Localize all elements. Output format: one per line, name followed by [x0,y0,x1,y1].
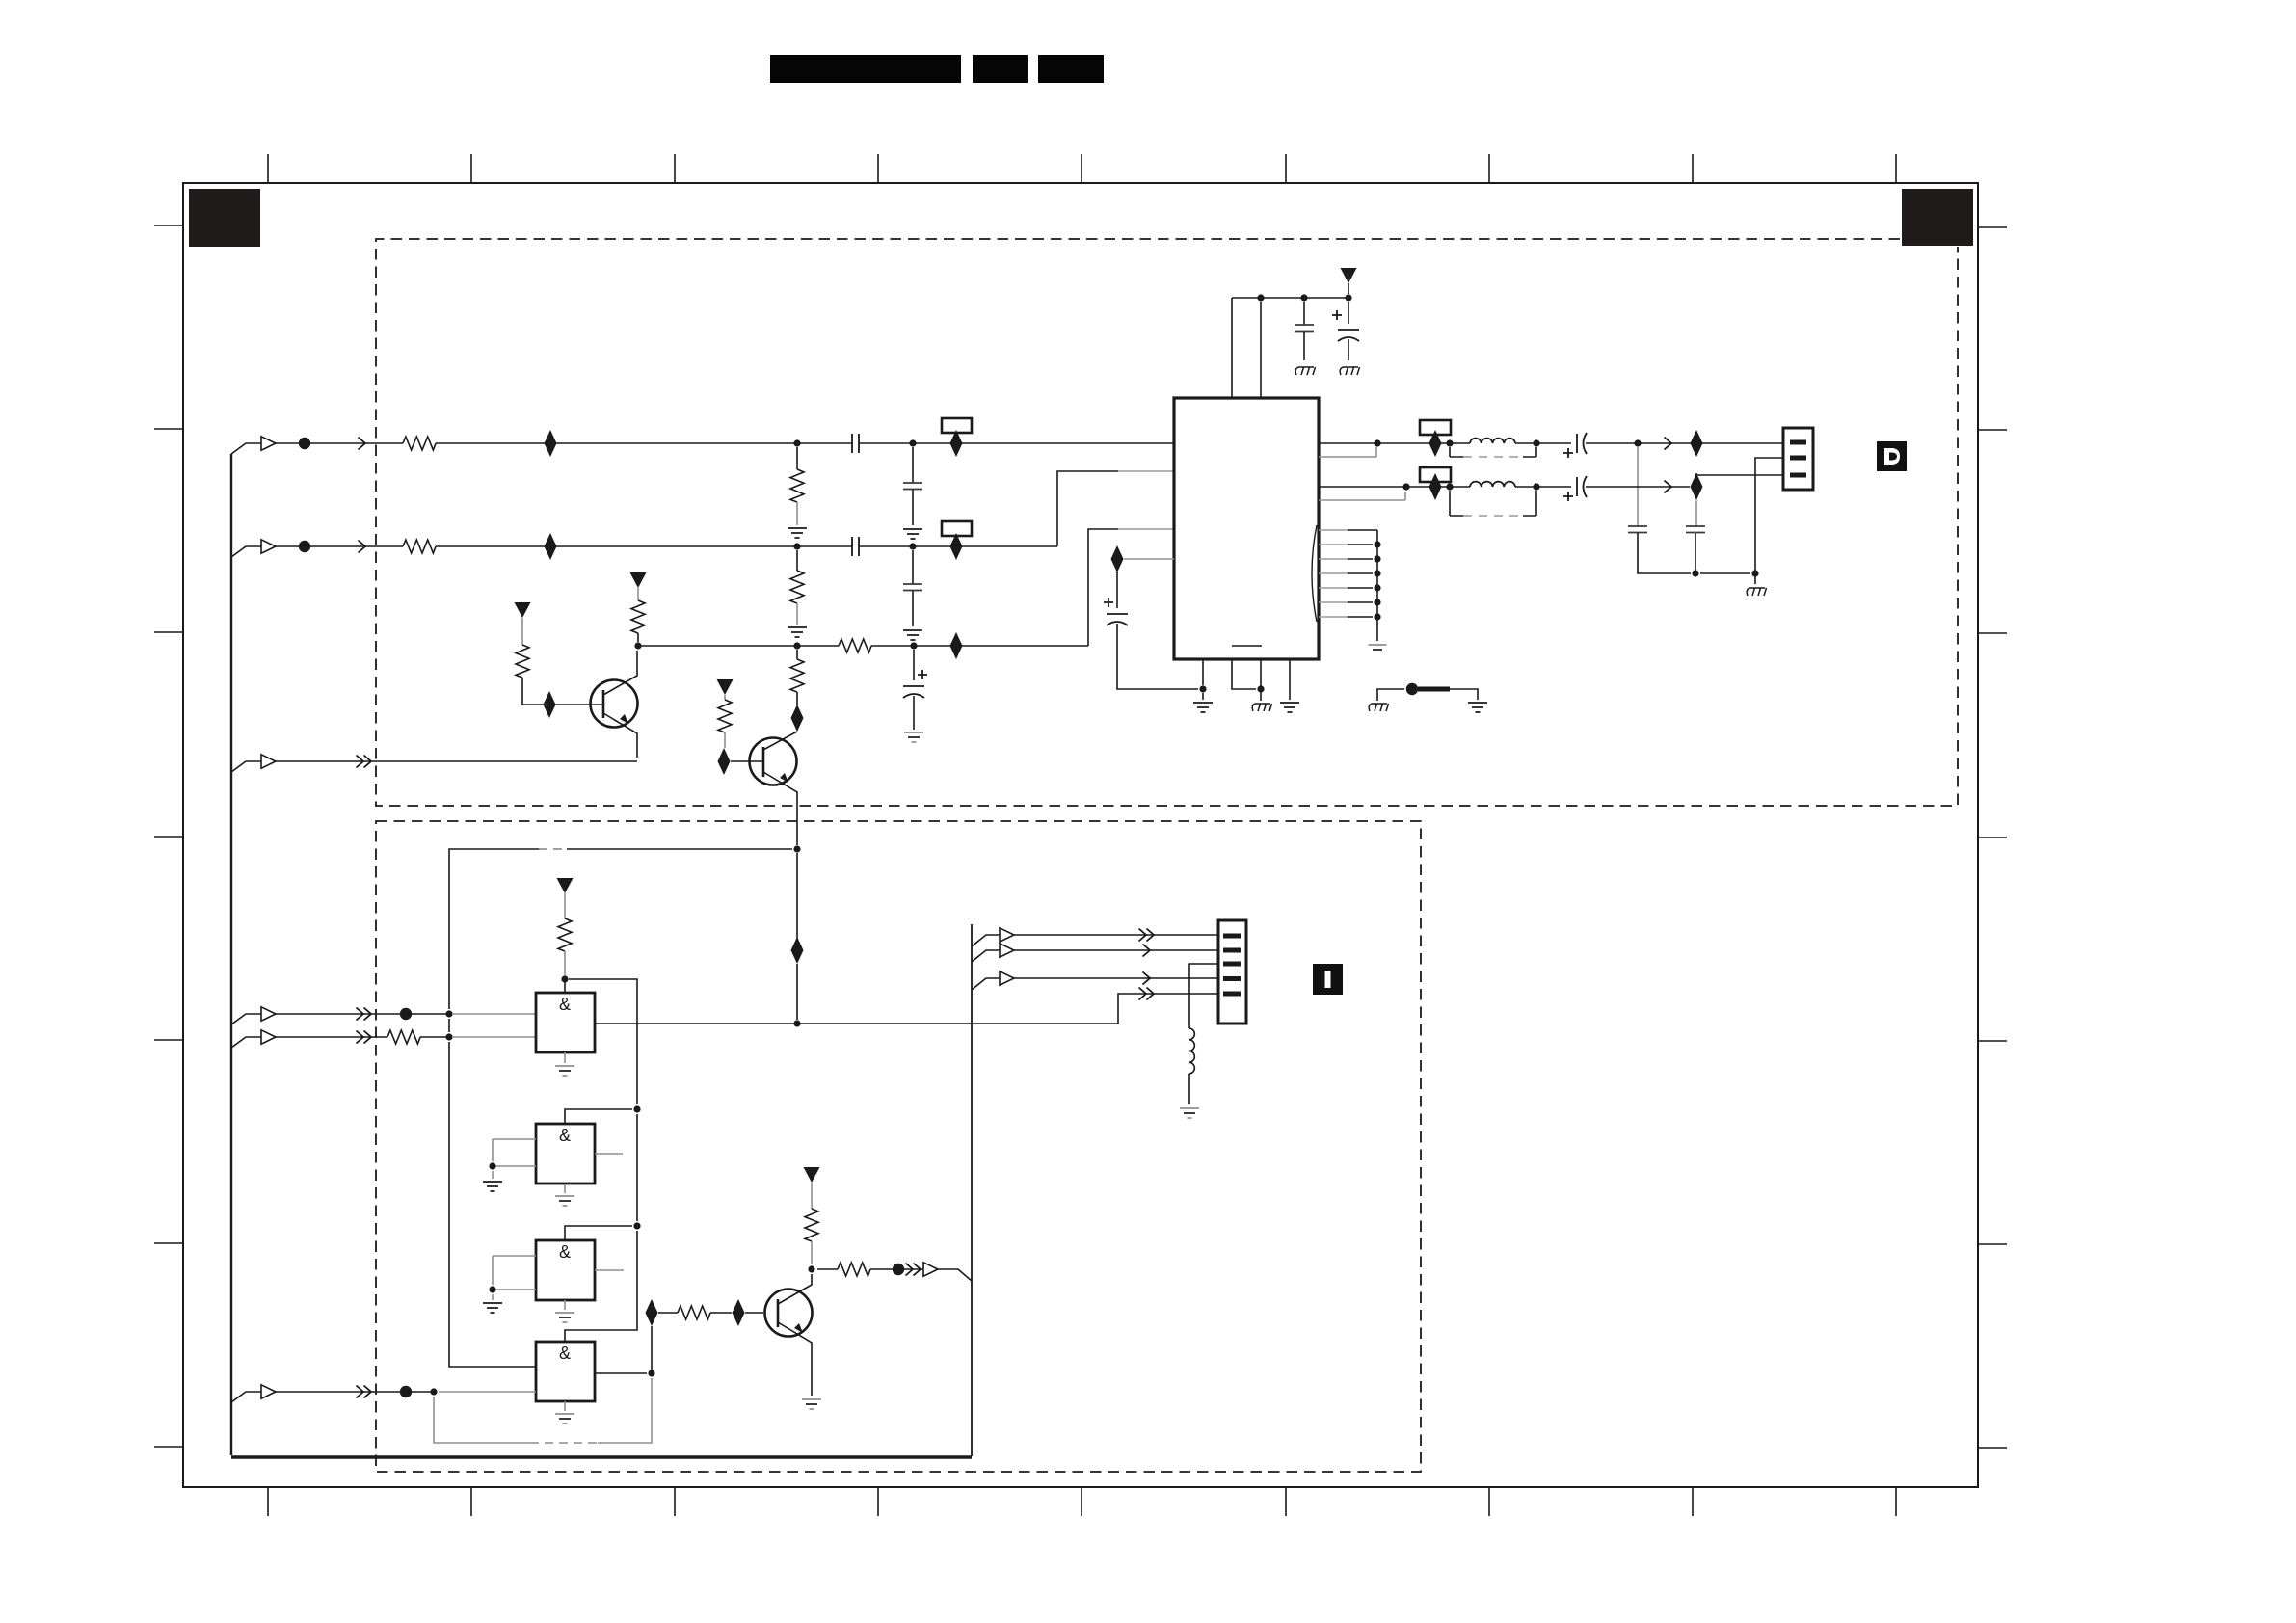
wire line5 [276,1036,449,1038]
node line1 [299,438,310,449]
capacitor C2 series [852,537,859,556]
junction [1533,483,1539,490]
diamond node base line [646,1299,658,1326]
NAND gate U2B [536,1124,595,1184]
junction [1751,570,1758,576]
chevron ch1 [1665,438,1672,450]
gate3 output stub [595,1269,624,1271]
gate3 tied inputs [493,1256,536,1300]
ground claw [1747,588,1766,596]
rail riser to IC [1088,529,1118,646]
double chevron line5 [357,1031,364,1044]
ground Q3 emitter [802,1399,821,1409]
resistor R12 [678,1306,710,1319]
resistor R4 to ground [796,550,798,571]
resistor R11 pull-up [558,918,572,951]
resistor R3 [403,540,436,553]
wire ch1 to connector [1586,442,1783,444]
wire into gate1 input2 [453,1036,536,1038]
capacitor C1 series [852,434,859,453]
label box L? [1420,420,1451,435]
node [1345,294,1351,301]
feedback vertical x661 [565,979,637,1342]
left input bus [230,454,232,1455]
channel1 aux pin [1319,447,1376,457]
corner block top-right [1902,189,1973,246]
junction [1446,483,1453,490]
svg-text:&: & [559,995,571,1014]
wire line1 after cap [859,442,1174,444]
junction rail left [634,642,641,649]
gate3 ground [564,1300,566,1310]
resistor R9 [718,700,732,732]
channel1 output wire [1319,442,1571,444]
gate2 tied inputs [493,1139,536,1179]
big node line4 [400,1008,412,1020]
NAND gate U2C [536,1240,595,1300]
junction line6 [430,1388,437,1395]
ground [483,1303,502,1313]
wire line1 entry slant [231,443,261,454]
node [1257,294,1264,301]
diamond node line1 [545,430,557,457]
label box R? [942,418,972,433]
channel2 aux pin [1319,492,1405,500]
frame tick marks bottom [268,1487,1896,1516]
section label I [1313,964,1343,995]
chevron O3 [1143,972,1151,985]
IC label line [1232,645,1262,647]
IC U1 [1174,398,1319,659]
diamond node Q1 base [544,691,556,718]
resistor R5 [516,645,529,678]
junction [445,1010,452,1017]
junction [1446,439,1453,446]
transistor Q1 [591,680,638,728]
gate1 ground [564,1052,566,1063]
diamond node ch1 [1429,430,1442,457]
dashed box section D [376,239,1958,806]
IC bottom pins joined [1232,659,1261,701]
capacitor C11 to ground [1637,447,1639,526]
junction rail C5 [910,642,917,649]
chevron ch2 [1665,481,1672,493]
ground [483,1182,502,1191]
resistor R8 rail to Q2 collector [796,650,798,659]
double chevron line4 [357,1008,364,1021]
junction [1533,439,1539,446]
junction [1692,570,1698,576]
ground [788,528,807,538]
redacted wire label [1418,687,1450,692]
gate2 top pin wire [565,1109,632,1124]
frame tick marks top [268,154,1896,183]
inductor L1 [1470,439,1515,443]
gate2 output stub [595,1153,623,1155]
connector pin3 coil wire [1189,964,1218,1104]
input arrow line5 [261,1030,276,1044]
wire line2 to cap [436,545,852,547]
junction [1634,439,1641,446]
ground [788,627,807,637]
wire line6 [276,1391,434,1393]
gate4 output wire [595,1372,647,1374]
resistor R1 [403,437,436,450]
NAND gate U2A [536,993,595,1052]
junction box top [793,845,800,852]
IC top pin wires [1232,298,1261,398]
svg-text:&: & [559,1242,571,1262]
wire node to gate1 top [564,979,566,993]
capacitor C3 to ground [912,447,914,483]
Q2 emitter feedback wire [796,853,798,1020]
frame tick marks left [154,226,183,1447]
wire to Q2 base [731,760,763,762]
title redaction bar 3 [1038,55,1104,83]
wire to resistor [658,1312,763,1314]
wire line2 after cap [859,545,1057,547]
input arrow line2 [261,540,276,553]
node [1300,294,1307,301]
junction rail Q2 [793,642,800,649]
inductor L2 [1470,482,1515,487]
wire line4 [276,1013,449,1015]
wire line2 entry slant [231,546,261,557]
frame border [183,183,1978,1487]
capacitor C12 to ground [1695,500,1697,526]
wire line4 entry slant [231,1014,261,1024]
wire line3 [276,760,637,762]
capacitor C6 to ground [1303,302,1305,325]
inductor L3 [1189,1028,1194,1074]
output line O2 tap [972,950,1218,962]
diamond node emitter wire [791,937,804,964]
resistor R2 to ground [796,447,798,469]
diamond node ch2 out [1691,473,1703,500]
output line O1 tap [972,935,1218,946]
wire line5 entry slant [231,1037,261,1048]
capacitor C5 electrolytic to ground [913,650,915,680]
IC bottom pin gnd2 [1289,659,1291,700]
IC pin bracket [1312,525,1317,622]
diamond node line2b [950,533,963,560]
input arrow line1 [261,437,276,450]
connector pin2 wire [1755,458,1783,570]
NAND gate U2D [536,1342,595,1401]
redacted wire label dashes [539,848,567,850]
transistor Q3 [765,1290,813,1337]
chevron O2 [1143,945,1151,957]
output line O3 tap [972,978,1218,990]
resistor R13 [805,1209,818,1241]
shield rect ch1 [1450,447,1536,457]
ground [903,630,922,640]
diamond node Q2 base [718,748,731,775]
section label D [1877,441,1907,471]
wire line3 entry slant [231,761,261,772]
svg-text:&: & [559,1344,571,1363]
wire into gate4 input2 [439,1391,536,1393]
transistor Q2 [750,738,797,785]
wire IC pin to cap node [1124,558,1174,560]
IC bottom pin gnd1 [1202,659,1204,700]
wire line2 up to IC pin [1057,471,1118,546]
wire line1 [276,442,403,444]
diamond node ch2 [1429,473,1442,500]
resistor R10 [387,1030,420,1044]
junction feedback U2B [633,1105,640,1112]
wire line2 [276,545,403,547]
big node [1406,683,1418,695]
wire to Q1 base [522,678,603,705]
junction line2 R4 [793,543,800,549]
gate1 output wire [595,994,1218,1024]
junction pullup node [561,975,568,982]
double chevron line6 [357,1386,364,1398]
capacitor C9 polarized series [1577,433,1587,454]
ground [1340,367,1359,375]
capacitor C10 polarized series [1577,476,1587,497]
junction line2 C4 [909,543,916,549]
supply arrow Vcc5 [557,878,574,893]
supply arrow Vcc2 [630,572,647,588]
junction [1374,439,1380,446]
capacitor C7 electrolytic to ground [1348,302,1349,324]
double chevron out4 [1139,988,1147,1000]
double chevron O1 [1139,929,1147,942]
frame tick marks right [1978,227,2007,1448]
supply rail top y309 [1232,297,1348,299]
input arrow line3 [261,755,276,768]
title redaction bar 2 [973,55,1028,83]
gate4 ground [564,1401,566,1411]
diamond node ch1 out [1691,430,1703,457]
gnd bus wire [1700,570,1755,584]
diamond node rail [950,632,963,659]
wire ch2 to connector [1586,486,1690,488]
connector CN-I [1218,920,1246,1024]
corner block top-left [189,189,260,247]
supply arrow Vcc6 [804,1167,820,1183]
label box L? ch2 [1420,467,1451,482]
junction feedback U2C [633,1222,640,1229]
diamond node Q2 collector [791,705,804,732]
supply arrow Vcc1 [515,602,531,618]
wire line6 entry slant [231,1392,261,1402]
svg-text:&: & [559,1126,571,1145]
supply arrow Vcc3 [717,679,734,695]
junction gate4 out [648,1370,654,1376]
junction [445,1033,452,1040]
junction line1 C3 [909,439,916,446]
big node out [893,1264,904,1275]
diamond node C8 [1111,545,1124,572]
dashed box section I [376,821,1421,1472]
chevron line2 [359,541,366,553]
ground claw [1252,704,1271,711]
resistor R14 [838,1263,870,1276]
output wire via R14 [817,1269,972,1281]
junction [1402,483,1409,490]
ground [904,732,923,742]
wire line1 to cap [436,442,852,444]
diamond node line1b [950,430,963,457]
wire into gate1 input1 [453,1013,536,1015]
arrow O3 [1000,971,1014,985]
resistor R6 [631,600,645,633]
shield rect ch2 [1450,491,1536,516]
wire ch2 up to pin3 [1696,473,1783,476]
ground claw [1369,704,1388,711]
node line2 [299,541,310,552]
feedback wire to NAND4 input1 [449,849,792,1367]
junction line1 R2 [793,439,800,446]
wire gate4 out up to resistor [651,1326,653,1370]
label box R? line2 [942,521,972,536]
capacitor C4 to ground [912,550,914,584]
junction on gate1 output [793,1020,800,1026]
separate gnd net y715 [1377,689,1478,701]
ground [1180,1108,1199,1118]
junction Q3 collector node [808,1265,814,1272]
ground [1468,703,1487,712]
double chevron line3 [357,756,364,768]
input arrow line6 [261,1385,276,1398]
ground [1295,367,1315,375]
title redaction bar 1 [770,55,961,83]
right output bus [971,924,973,1456]
arrow O1 [1000,928,1014,942]
double chevron [906,1264,914,1276]
gate2 ground [564,1184,566,1193]
chevron line1 [359,438,366,450]
feedback return wire [434,1378,652,1443]
diamond node Q3 base [733,1299,745,1326]
input arrow line4 [261,1007,276,1021]
supply arrow Vcc4 [1341,268,1357,283]
resistor R7 on rail [839,639,871,652]
bottom bus wire [231,1455,972,1459]
output arrow [923,1263,938,1276]
IC right grouped stubs [1319,530,1348,617]
capacitor C8 electrolytic [1116,572,1118,608]
ground stubs [1369,645,1387,650]
rail wire y670 [638,645,1088,647]
channel2 output wire [1319,486,1571,488]
big node line6 [400,1386,412,1397]
ground [903,529,922,539]
diamond node line2 [545,533,557,560]
arrow O2 [1000,944,1014,957]
gate3 top pin wire [565,1226,632,1240]
connector CN-D [1783,428,1813,490]
